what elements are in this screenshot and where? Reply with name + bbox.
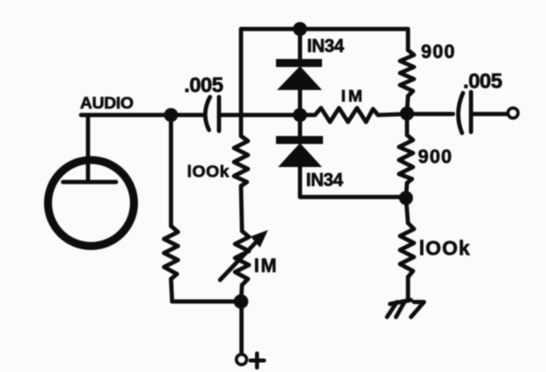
svg-text:IM: IM [341, 87, 365, 106]
junction node right lower [399, 191, 413, 205]
svg-text:.005: .005 [463, 70, 503, 93]
resistor R5 900 (upper right) [400, 50, 414, 96]
potentiometer R2 arrowhead [251, 230, 269, 248]
resistor R3 (left bias, unlabeled) vertical wire from input junction [169, 115, 173, 226]
resistor R3 zigzag [164, 226, 178, 279]
wire R5 to mid junction [407, 96, 408, 113]
capacitor C1 .005 straight plate [217, 97, 221, 131]
svg-text:IN34: IN34 [307, 36, 344, 56]
wire R7 to ground [406, 277, 410, 300]
svg-text:lOOk: lOOk [187, 162, 230, 181]
svg-text:lOOk: lOOk [419, 238, 471, 260]
wire junction to R7 [406, 198, 408, 223]
wire top bus drop to diode D1 [298, 29, 302, 60]
wire C2 to output terminal [473, 112, 507, 116]
wire junction to D2 [298, 115, 302, 137]
potentiometer R2 arrow shaft [220, 238, 260, 280]
wire D2 to bottom run [300, 166, 406, 197]
svg-text:AUDIO: AUDIO [80, 94, 133, 113]
wire bottom junction to + terminal [239, 302, 243, 354]
capacitor C1 .005 curved plate [205, 97, 210, 130]
resistor R7 100k (right) [400, 223, 414, 277]
plus sign horizontal [251, 359, 265, 363]
output terminal J1 [508, 108, 518, 118]
ground hatch 2 [396, 301, 405, 317]
plus sign vertical [255, 354, 259, 368]
resistor R1 100k (left vertical) [234, 136, 248, 186]
wire top bus [241, 27, 408, 31]
wire R2 to bottom junction [241, 285, 242, 302]
ground hatch 1 [387, 302, 397, 317]
junction node diode midpoint [293, 108, 307, 122]
terminal B+ circle [237, 355, 247, 365]
svg-text:900: 900 [418, 147, 453, 168]
junction node audio input [164, 108, 178, 122]
wire mid junction to C2 [407, 112, 453, 116]
ground hatch 3 [411, 302, 424, 317]
potentiometer R2 1M zigzag [235, 231, 249, 285]
svg-text:IN34: IN34 [306, 170, 343, 190]
wire input drop to transducer [86, 115, 90, 179]
wire top bus to R5 [406, 29, 410, 50]
diode D1 1N34 cathode bar [276, 59, 322, 67]
junction node right mid [400, 107, 414, 121]
wire left vertical from top bus down through main bus [239, 29, 243, 136]
diode D1 1N34 anode triangle [277, 66, 322, 90]
wire R3 bottom to junction [171, 279, 241, 302]
svg-text:900: 900 [421, 42, 456, 63]
capacitor C2 .005 straight plate [469, 92, 473, 132]
microphone MIC1 (transducer circle) [48, 160, 134, 246]
capacitor C2 .005 curved plate [458, 93, 463, 133]
junction node top bus [293, 22, 307, 36]
wire R1 to potentiometer [241, 186, 242, 231]
resistor R6 900 (lower right) [399, 114, 413, 183]
wire C1 to diode junction [221, 113, 300, 117]
wire audio input horizontal [81, 113, 204, 117]
junction node bottom left [234, 294, 249, 309]
resistor R4 1M horizontal zigzag [300, 108, 407, 122]
svg-text:.005: .005 [184, 74, 224, 97]
ground chassis bar [390, 300, 411, 304]
microphone button electrode [63, 180, 116, 184]
svg-text:IM: IM [254, 256, 278, 277]
wire R6 to bottom junction [406, 183, 407, 198]
diode D2 1N34 cathode bar [276, 136, 323, 144]
diode D2 1N34 anode triangle [278, 143, 322, 167]
wire D1 to main bus junction [298, 89, 302, 115]
